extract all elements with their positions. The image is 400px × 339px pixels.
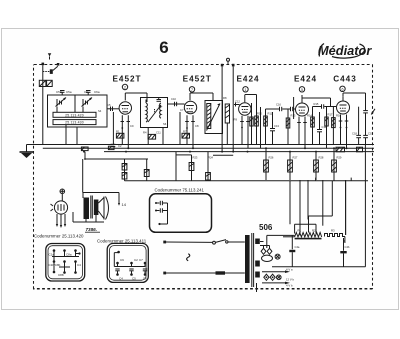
zigzag left lead xyxy=(283,236,295,238)
antenna terminal A1 xyxy=(42,63,45,66)
svg-text:C4: C4 xyxy=(77,263,81,267)
circled 1 under E424 no1 xyxy=(243,87,248,92)
tube V5 C443 xyxy=(337,97,350,121)
svg-text:C9: C9 xyxy=(120,258,124,262)
svg-text:5: 5 xyxy=(301,88,303,92)
mains wire bottom xyxy=(166,272,245,274)
cap C9 stage1 xyxy=(111,144,116,146)
box B internals xyxy=(114,251,147,276)
svg-text:C10: C10 xyxy=(171,97,176,101)
svg-text:25.113.430: 25.113.430 xyxy=(65,121,84,125)
filter cap 1 xyxy=(289,235,295,266)
heater resistor zigzag 1 xyxy=(295,233,322,239)
main bus line 2 xyxy=(43,147,374,149)
resistor below bus b2 xyxy=(357,147,363,152)
svg-text:506: 506 xyxy=(259,223,273,232)
svg-text:R23: R23 xyxy=(193,156,198,160)
svg-text:C1a: C1a xyxy=(49,253,55,257)
stage4 parts xyxy=(286,109,307,148)
svg-text:R14: R14 xyxy=(307,114,312,118)
tube V2 E452T xyxy=(184,93,196,121)
tube V1 E452T xyxy=(119,93,131,121)
mid drop resistor x334 xyxy=(332,148,337,181)
aerial coil S1 xyxy=(39,80,52,86)
svg-text:7386.: 7386. xyxy=(86,227,98,232)
tube V3 E424 xyxy=(239,95,251,122)
svg-text:E452T: E452T xyxy=(112,75,141,84)
dial lamp 1 xyxy=(264,274,269,280)
box C vertical wire xyxy=(158,203,167,225)
svg-text:C2: C2 xyxy=(118,144,122,148)
mains terminal 1 xyxy=(163,241,166,244)
T1 left coil xyxy=(146,103,147,122)
speaker cone xyxy=(98,197,108,220)
wire V5 anode top xyxy=(343,93,366,110)
svg-text:C6a: C6a xyxy=(94,90,100,94)
svg-text:C1b/C8b: C1b/C8b xyxy=(49,263,61,267)
zigzag right lead down xyxy=(344,237,346,244)
svg-text:R1: R1 xyxy=(116,130,120,134)
svg-text:C8: C8 xyxy=(143,277,147,281)
svg-text:R7: R7 xyxy=(183,130,187,134)
svg-text:C11: C11 xyxy=(156,131,161,135)
zigzag labels xyxy=(298,229,336,233)
power transformer core xyxy=(252,233,254,287)
cap labels C53 C5a xyxy=(56,90,100,94)
mains terminal 2 xyxy=(163,272,166,275)
svg-text:6: 6 xyxy=(342,88,344,92)
stage3 cathode parts xyxy=(240,121,250,148)
output arrow C17 xyxy=(371,109,375,115)
bus segment y155 right xyxy=(213,154,233,156)
svg-text:R13: R13 xyxy=(291,114,296,118)
resistor R3 stage1 xyxy=(116,133,124,138)
resistor R10 stage3 xyxy=(255,104,259,145)
Mediator logo xyxy=(318,43,372,58)
T2 arrow xyxy=(207,104,221,131)
IF transformer T1 box xyxy=(141,98,168,128)
resistor R11 xyxy=(264,109,271,145)
T1 arrow xyxy=(146,100,161,123)
band filter box xyxy=(48,95,108,127)
wire drop x146.7 xyxy=(144,159,149,181)
bottom collector wire xyxy=(272,266,365,268)
resistor R narrow (det) xyxy=(225,104,229,145)
T2 winding resistor xyxy=(207,104,211,129)
wire band filter to V1 grid xyxy=(107,107,119,112)
mains wire top xyxy=(166,241,213,243)
circled 7 under E452T no2 xyxy=(189,87,194,92)
cap C13 xyxy=(270,112,275,145)
power transformer primary xyxy=(245,235,250,283)
svg-text:C18: C18 xyxy=(352,132,357,136)
heater arrow b xyxy=(262,278,295,288)
mid drop resistor x208 xyxy=(206,152,211,181)
dial lamp 2 xyxy=(270,274,275,280)
svg-text:6: 6 xyxy=(159,38,168,57)
cap C18 xyxy=(343,97,361,145)
svg-text:R24: R24 xyxy=(208,156,213,160)
svg-text:C5a: C5a xyxy=(66,90,72,94)
trimmer capacitor left xyxy=(56,98,67,107)
stage2 cathode parts xyxy=(180,112,195,148)
vertical feed x308 xyxy=(307,180,309,220)
antenna terminal A2 xyxy=(57,63,60,66)
svg-text:C19: C19 xyxy=(368,132,373,136)
circled 5 under E424 no2 xyxy=(299,87,304,92)
svg-text:C4b: C4b xyxy=(345,245,350,249)
rectifier top feed xyxy=(267,235,295,248)
svg-text:R10: R10 xyxy=(257,112,262,116)
svg-text:Codenummer 75.113.241: Codenummer 75.113.241 xyxy=(155,188,205,193)
svg-text:C12: C12 xyxy=(235,100,240,104)
svg-text:R16: R16 xyxy=(336,114,341,118)
codenummer box A xyxy=(46,244,85,282)
svg-text:12 V b: 12 V b xyxy=(286,278,295,282)
cap C19 xyxy=(363,111,368,145)
svg-text:4 V a: 4 V a xyxy=(286,268,293,272)
input terminal circle xyxy=(227,58,230,64)
wire T1 out to V2 grid xyxy=(168,102,185,106)
phono wire P2 xyxy=(232,64,235,152)
resistor below bus b1 xyxy=(336,147,345,152)
svg-text:C16: C16 xyxy=(276,103,281,107)
resistor R16 grid C443 xyxy=(332,107,336,146)
svg-text:14: 14 xyxy=(122,202,127,207)
svg-text:Codenummer 25.113.420: Codenummer 25.113.420 xyxy=(34,234,84,239)
vertical feed x365.4 xyxy=(364,145,366,267)
svg-text:C14: C14 xyxy=(322,125,327,129)
extra vertical v251 xyxy=(250,103,253,145)
coil bar S3 lower xyxy=(53,120,96,125)
box A internals xyxy=(52,249,81,274)
vertical feed x300 xyxy=(299,180,301,235)
svg-text:S4: S4 xyxy=(98,109,102,113)
wire V2 anode top xyxy=(190,93,213,101)
output transformer primary xyxy=(83,193,89,223)
resistor R7 stage2 xyxy=(182,133,190,138)
wire V3 anode xyxy=(245,95,257,105)
T1 right coil xyxy=(160,103,161,118)
wire antenna down xyxy=(42,65,44,145)
capacitor C78 (series antenna cap) xyxy=(43,66,58,74)
cap C14 xyxy=(317,112,322,145)
circled dot lamp 1 xyxy=(275,254,280,259)
svg-text:C4: C4 xyxy=(119,277,123,281)
filter cap 2 xyxy=(340,238,346,267)
phono wire P1 xyxy=(221,64,224,152)
dashed schematic border xyxy=(33,65,373,290)
band filter top caps xyxy=(60,91,91,96)
wire V1 anode top xyxy=(125,92,147,94)
svg-text:C88: C88 xyxy=(58,273,64,277)
svg-text:R17: R17 xyxy=(328,113,333,117)
svg-text:25.113.420: 25.113.420 xyxy=(65,113,84,117)
svg-text:E452T: E452T xyxy=(183,75,212,84)
svg-text:C5: C5 xyxy=(132,277,136,281)
box A labels xyxy=(49,253,82,278)
IF transformer T2 box xyxy=(205,101,223,134)
svg-text:R1: R1 xyxy=(298,229,302,233)
T1 top wire into box xyxy=(146,93,148,102)
svg-text:C7: C7 xyxy=(139,258,143,262)
junction dots on buses xyxy=(83,147,348,152)
svg-text:R9: R9 xyxy=(234,118,238,122)
vertical feed x323 xyxy=(322,180,324,226)
svg-text:4 V b: 4 V b xyxy=(286,284,293,288)
box B labels xyxy=(119,258,147,281)
svg-text:R15: R15 xyxy=(314,102,319,106)
svg-text:R4: R4 xyxy=(143,131,147,135)
svg-text:E424: E424 xyxy=(236,75,259,84)
ground symbol xyxy=(20,145,34,159)
antenna symbol xyxy=(48,53,52,59)
wire top of output transformer xyxy=(83,193,120,206)
resistor R21 stacked pair xyxy=(122,164,127,180)
secondary winding S2 xyxy=(255,261,260,267)
component value labels (illegible in scan) xyxy=(98,96,373,249)
svg-text:C7: C7 xyxy=(180,108,184,112)
resistor on bus r1 xyxy=(81,147,88,151)
grid cap C16 V4 xyxy=(271,107,295,111)
svg-text:C443: C443 xyxy=(333,75,357,84)
power switch xyxy=(213,240,245,245)
tube V4 E424 xyxy=(296,95,309,122)
circled plus xyxy=(60,189,65,194)
extra vertical v260 xyxy=(260,107,262,148)
svg-text:R28: R28 xyxy=(319,156,324,160)
zigzag top links xyxy=(290,181,346,235)
heater resistor zigzag 2 xyxy=(325,234,346,237)
main bus line 3 xyxy=(104,151,374,153)
svg-text:C9: C9 xyxy=(130,124,134,128)
extra vertical v326 xyxy=(325,107,328,148)
speaker pin arrows xyxy=(56,214,66,228)
svg-text:R2: R2 xyxy=(312,229,316,233)
T1 cap xyxy=(157,98,162,102)
mid drop resistor x290 xyxy=(288,152,293,180)
stage1 cathode parts xyxy=(113,112,130,148)
mid drop resistor x316 xyxy=(314,152,319,180)
grid cap C15 V5 xyxy=(317,104,336,108)
coil bar S2 upper xyxy=(53,112,96,117)
resistor on bus r2 xyxy=(108,146,114,149)
svg-text:R8: R8 xyxy=(223,96,227,100)
mid drop resistor x266 xyxy=(264,148,269,180)
fuse xyxy=(216,271,226,274)
transformer bottom lead xyxy=(256,283,258,292)
codenummer box B xyxy=(107,243,148,282)
svg-text:C13: C13 xyxy=(274,124,279,128)
rectifier 506 tube xyxy=(260,242,273,262)
svg-text:7: 7 xyxy=(191,88,193,92)
codenummer box C (middle) xyxy=(150,194,212,233)
mid drop resistor x191.5 xyxy=(176,155,194,181)
band filter divider xyxy=(74,95,76,112)
trimmer capacitor right xyxy=(82,98,93,107)
circled 2 under E452T no1 xyxy=(122,84,127,89)
circled dot lamp 2 xyxy=(277,275,282,280)
svg-text:R29: R29 xyxy=(337,156,342,160)
wire bottom of output transformer xyxy=(73,212,104,222)
svg-text:1: 1 xyxy=(245,88,247,92)
vertical feed x345.6 xyxy=(345,180,347,235)
output transformer secondary xyxy=(94,200,99,223)
extra vertical v293.6 xyxy=(293,97,295,119)
svg-text:C5: C5 xyxy=(107,103,111,107)
resistor R4 under T1 xyxy=(148,128,163,146)
box C cap 2 xyxy=(155,208,168,212)
stage5 parts xyxy=(339,121,349,149)
mid vertical x176 xyxy=(175,152,177,181)
resistor R14 stage4 xyxy=(311,107,317,146)
wire V4 anode top line xyxy=(302,98,331,107)
svg-text:2: 2 xyxy=(124,86,126,90)
svg-text:R26: R26 xyxy=(269,156,274,160)
svg-text:E424: E424 xyxy=(294,75,317,84)
main bus line 1 xyxy=(27,144,375,146)
svg-text:R3: R3 xyxy=(331,229,335,233)
output transformer core xyxy=(91,196,93,219)
svg-text:C8: C8 xyxy=(195,124,199,128)
svg-text:C2: C2 xyxy=(134,258,138,262)
grid cap V3 xyxy=(234,103,240,107)
secondary winding S3 xyxy=(255,272,260,278)
wire box internals xyxy=(57,107,83,145)
wire drop x124.5 xyxy=(124,159,126,181)
svg-text:C4a: C4a xyxy=(295,245,300,249)
AC tilde symbol xyxy=(187,254,190,261)
circled 6 under C443 xyxy=(340,86,345,91)
secondary winding S1 xyxy=(255,239,260,245)
box C cap 1 xyxy=(155,201,168,205)
svg-text:C8a: C8a xyxy=(66,253,72,257)
wire y159 xyxy=(83,152,148,193)
svg-text:S6: S6 xyxy=(163,122,167,126)
speaker driver tube xyxy=(51,194,68,214)
label 7386 xyxy=(85,227,100,232)
junction stubs on y180.8 xyxy=(316,178,352,181)
mid horizontal line y180 xyxy=(125,180,369,182)
svg-text:R27: R27 xyxy=(293,156,298,160)
svg-text:R11: R11 xyxy=(268,112,273,116)
heater arrow a xyxy=(262,268,293,273)
